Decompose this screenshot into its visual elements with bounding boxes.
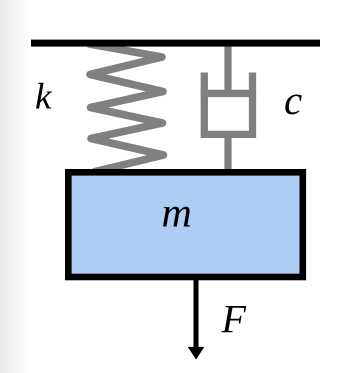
force arrow F : head <box>188 347 205 360</box>
damper c : cylinder cup <box>204 73 252 135</box>
svg-text:c: c <box>284 77 302 123</box>
spring k <box>88 44 164 172</box>
mass m box <box>68 172 302 277</box>
damper c : top rod <box>224 46 231 97</box>
damper c : bottom rod <box>224 134 231 172</box>
damper c : piston plate <box>201 90 256 97</box>
svg-text:m: m <box>162 191 192 237</box>
svg-text:k: k <box>35 77 52 118</box>
svg-text:F: F <box>221 297 247 342</box>
ceiling bar <box>31 40 320 47</box>
force arrow F : shaft <box>194 280 199 349</box>
